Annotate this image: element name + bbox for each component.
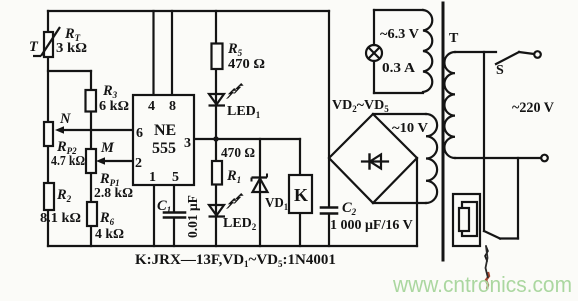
- svg-text:N: N: [59, 111, 71, 127]
- svg-text:VD2~VD5: VD2~VD5: [332, 98, 389, 114]
- svg-text:4.7 kΩ: 4.7 kΩ: [51, 154, 85, 169]
- svg-text:T: T: [449, 31, 459, 46]
- svg-text:T: T: [29, 39, 39, 55]
- svg-text:2: 2: [135, 156, 142, 171]
- svg-text:0.3 A: 0.3 A: [382, 61, 416, 76]
- svg-text:0.01 μF: 0.01 μF: [185, 195, 200, 238]
- svg-text:~6.3 V: ~6.3 V: [380, 27, 419, 42]
- svg-text:6: 6: [136, 126, 143, 141]
- svg-text:1 000 μF/16 V: 1 000 μF/16 V: [330, 218, 413, 233]
- svg-text:NE: NE: [154, 122, 176, 139]
- svg-text:3: 3: [184, 136, 191, 151]
- svg-text:www.cntronics.com: www.cntronics.com: [392, 272, 572, 297]
- svg-text:LED2: LED2: [223, 216, 257, 232]
- svg-text:4 kΩ: 4 kΩ: [95, 227, 124, 242]
- svg-text:S: S: [496, 63, 504, 78]
- svg-text:3 kΩ: 3 kΩ: [56, 41, 87, 56]
- svg-text:6 kΩ: 6 kΩ: [99, 99, 129, 114]
- svg-text:470 Ω: 470 Ω: [221, 146, 255, 161]
- svg-text:8: 8: [169, 99, 176, 114]
- svg-text:555: 555: [152, 140, 176, 157]
- svg-text:8.1 kΩ: 8.1 kΩ: [40, 211, 81, 226]
- svg-text:4: 4: [148, 99, 155, 114]
- svg-text:LED1: LED1: [227, 104, 261, 120]
- svg-text:5: 5: [172, 170, 179, 185]
- svg-text:K: K: [294, 185, 308, 205]
- svg-text:M: M: [100, 140, 115, 156]
- svg-text:1: 1: [149, 170, 156, 185]
- svg-text:~10 V: ~10 V: [392, 121, 428, 136]
- svg-text:K:JRX—13F,VD1~VD5:1N4001: K:JRX—13F,VD1~VD5:1N4001: [135, 252, 336, 269]
- svg-text:~220 V: ~220 V: [512, 100, 554, 116]
- svg-text:470 Ω: 470 Ω: [228, 57, 265, 72]
- svg-text:2.8 kΩ: 2.8 kΩ: [94, 186, 133, 201]
